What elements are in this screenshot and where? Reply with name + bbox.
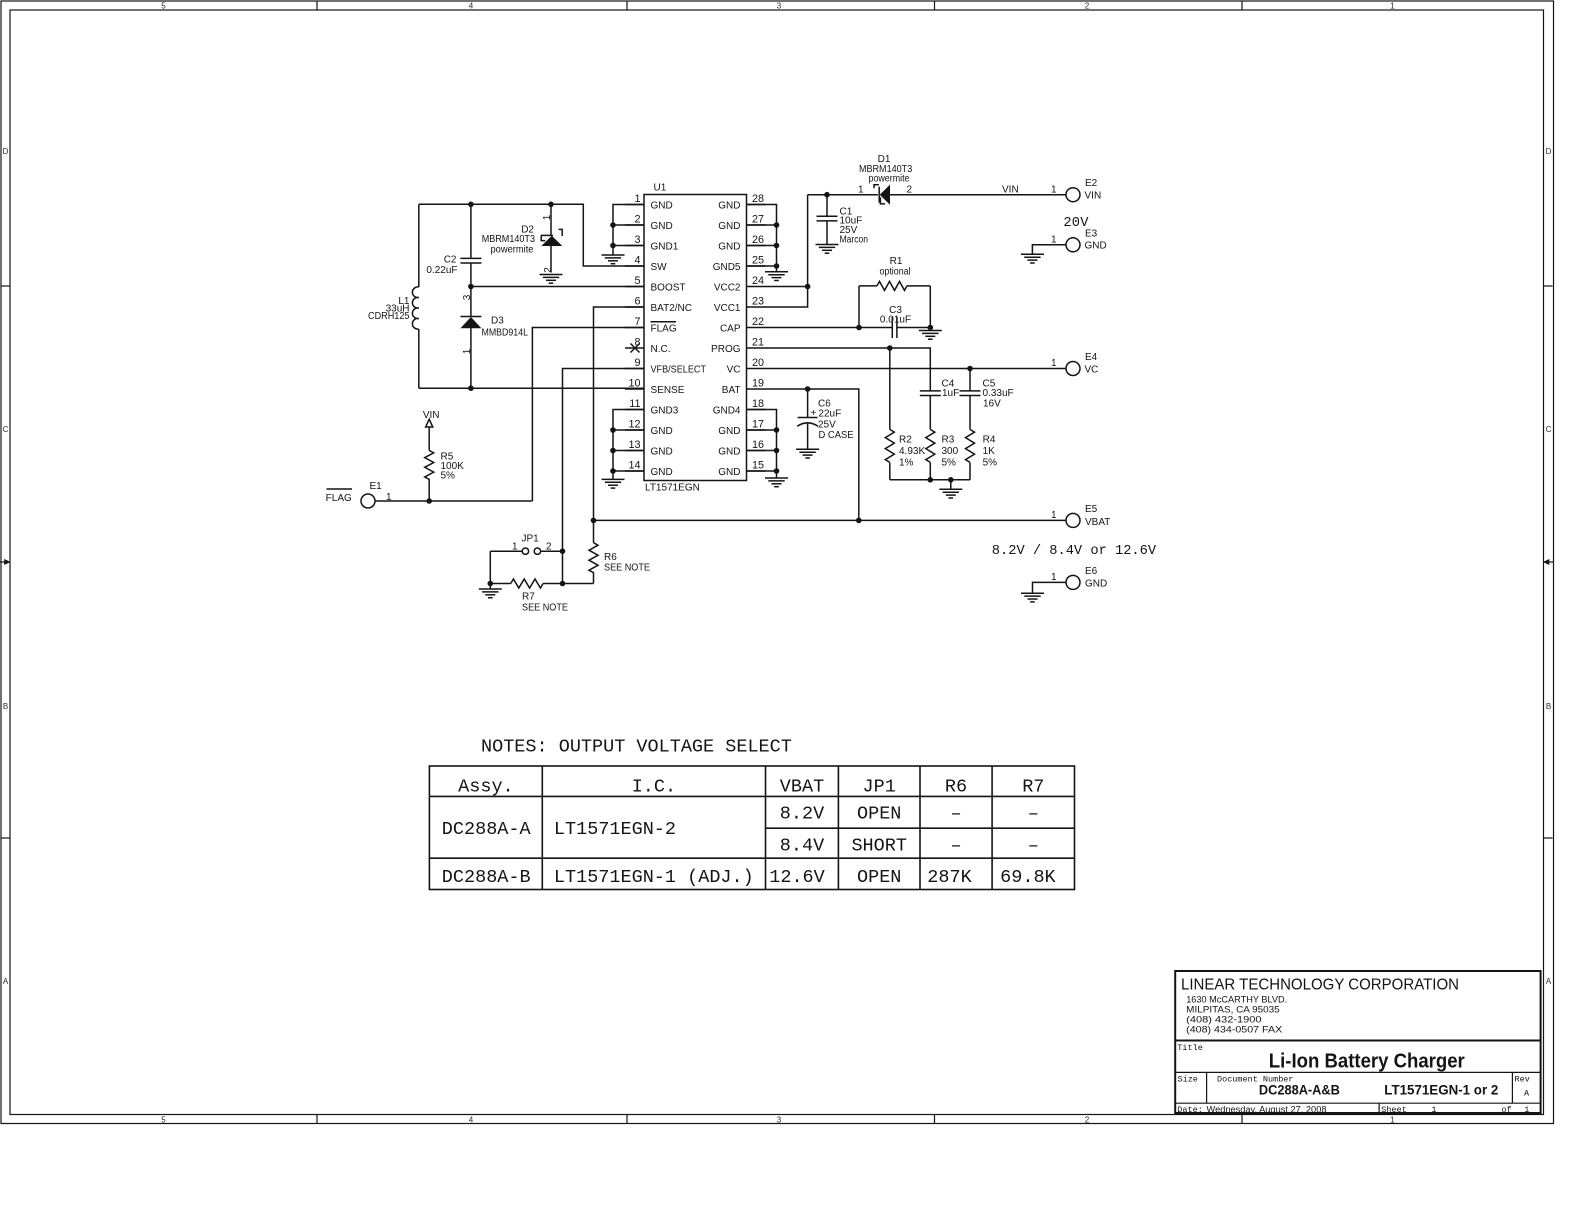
node VC C5 — [967, 366, 973, 372]
svg-text:I.C.: I.C. — [632, 776, 676, 797]
wire PROG net — [766, 348, 931, 391]
table row divider partial — [766, 827, 1075, 829]
svg-text:2: 2 — [543, 267, 554, 273]
wire BOOST — [471, 286, 644, 288]
svg-text:5%: 5% — [983, 458, 998, 469]
title block outer box — [1175, 971, 1540, 1113]
node top rail D2 — [548, 202, 554, 208]
svg-text:B: B — [1546, 702, 1551, 711]
svg-text:22uF: 22uF — [818, 409, 841, 420]
svg-text:SEE NOTE: SEE NOTE — [604, 563, 650, 574]
svg-text:2: 2 — [907, 184, 913, 195]
svg-text:24: 24 — [752, 275, 764, 287]
svg-text:3: 3 — [634, 234, 640, 246]
pin 28 stub — [747, 204, 766, 206]
svg-text:5: 5 — [634, 275, 640, 287]
table column assy — [541, 766, 543, 890]
svg-text:NOTES: OUTPUT VOLTAGE SELECT: NOTES: OUTPUT VOLTAGE SELECT — [481, 737, 792, 758]
svg-text:C: C — [1546, 425, 1552, 434]
wire BAT2/NC net — [594, 307, 645, 543]
ground comp rail — [939, 480, 962, 498]
ground pins 25-28 — [765, 272, 788, 281]
svg-text:D CASE: D CASE — [819, 430, 854, 441]
wire BAT net — [766, 389, 859, 520]
pin 25 stub — [747, 265, 766, 267]
diode D2 — [541, 204, 563, 272]
svg-text:LT1571EGN-1 or 2: LT1571EGN-1 or 2 — [1384, 1082, 1498, 1098]
svg-text:Date:: Date: — [1177, 1105, 1203, 1115]
svg-text:1K: 1K — [983, 446, 996, 457]
svg-text:C2: C2 — [444, 255, 457, 266]
svg-text:17: 17 — [752, 419, 764, 431]
svg-text:R3: R3 — [942, 435, 955, 446]
title block size column divider — [1206, 1072, 1208, 1103]
resistor R4 — [966, 429, 975, 479]
pin 13 stub — [625, 450, 644, 452]
svg-text:22: 22 — [752, 316, 764, 328]
CIRCUIT — [625, 183, 766, 494]
wire CAP net — [766, 327, 893, 329]
svg-text:3: 3 — [462, 294, 473, 300]
svg-text:1: 1 — [634, 193, 640, 205]
resistor R5 — [425, 450, 434, 501]
resistor R3 — [926, 429, 935, 479]
svg-text:4: 4 — [469, 2, 474, 11]
svg-text:GND: GND — [651, 467, 673, 478]
svg-text:R6: R6 — [604, 552, 617, 563]
node pin27 — [774, 222, 780, 228]
svg-text:1: 1 — [1051, 572, 1057, 583]
svg-text:E3: E3 — [1085, 228, 1098, 239]
ground pins 15-18 — [765, 478, 788, 487]
svg-text:287K: 287K — [927, 867, 972, 888]
diode D1 — [874, 185, 1066, 205]
node VFB R7 rail — [560, 581, 566, 587]
svg-text:GND4: GND4 — [713, 405, 741, 416]
svg-text:GND: GND — [718, 426, 740, 437]
svg-text:1: 1 — [1051, 358, 1057, 369]
svg-text:JP1: JP1 — [863, 776, 896, 797]
pin 18 stub — [747, 409, 766, 411]
connector E4 — [1066, 362, 1080, 376]
svg-text:A: A — [1524, 1089, 1530, 1099]
capacitor C6 polarized — [797, 389, 818, 449]
svg-text:(408) 434-0507 FAX: (408) 434-0507 FAX — [1186, 1025, 1283, 1036]
svg-text:3: 3 — [777, 1116, 782, 1125]
connector E6 — [1066, 575, 1080, 589]
svg-text:4: 4 — [469, 1116, 474, 1125]
svg-text:GND: GND — [651, 221, 673, 232]
svg-text:1: 1 — [1051, 184, 1057, 195]
wire pins 11-14 gnd — [613, 410, 644, 479]
svg-text:D3: D3 — [491, 316, 504, 327]
svg-text:GND: GND — [718, 467, 740, 478]
svg-text:MILPITAS, CA 95035: MILPITAS, CA 95035 — [1186, 1004, 1280, 1015]
svg-text:VIN: VIN — [1002, 185, 1019, 196]
ground E6 — [1021, 593, 1044, 602]
connector E5 — [1066, 513, 1080, 527]
title block line under title row — [1175, 1071, 1540, 1073]
pin 16 stub — [747, 450, 766, 452]
wire SW top rail — [419, 204, 644, 266]
table column vbat — [837, 766, 839, 890]
svg-text:GND3: GND3 — [651, 405, 679, 416]
pin 5 stub — [625, 286, 644, 288]
ground pins 1-3 — [602, 255, 625, 264]
svg-text:1: 1 — [1051, 510, 1057, 521]
table column r6 — [991, 766, 993, 890]
svg-text:VIN: VIN — [1085, 191, 1102, 202]
svg-text:6: 6 — [634, 296, 640, 308]
svg-text:E1: E1 — [370, 481, 383, 492]
svg-text:11: 11 — [629, 398, 640, 410]
title block line under company — [1175, 1040, 1540, 1042]
svg-text:5%: 5% — [441, 471, 456, 482]
connector E1 — [361, 494, 375, 508]
node C1 top — [824, 192, 830, 198]
svg-text:1: 1 — [1431, 1105, 1436, 1115]
wire VCC vertical — [766, 195, 808, 307]
table column ic — [765, 766, 767, 890]
svg-text:25V: 25V — [818, 419, 836, 430]
svg-text:12: 12 — [628, 419, 640, 431]
title block rev column divider — [1511, 1072, 1513, 1103]
svg-text:B: B — [3, 702, 8, 711]
svg-text:1: 1 — [386, 492, 392, 503]
svg-text:R7: R7 — [1022, 776, 1044, 797]
pin 8 no-connect X — [631, 344, 640, 353]
svg-text:A: A — [3, 977, 9, 986]
table header underline — [429, 795, 1074, 797]
pin 7 name overline — [651, 321, 677, 323]
wire VCC2 tee — [766, 286, 808, 288]
svg-text:Size: Size — [1178, 1075, 1198, 1085]
svg-text:of: of — [1501, 1105, 1511, 1115]
pin 2 stub — [625, 224, 644, 226]
svg-text:CDRH125: CDRH125 — [368, 311, 410, 322]
svg-text:1%: 1% — [899, 458, 914, 469]
svg-text:JP1: JP1 — [522, 534, 540, 545]
svg-text:SW: SW — [651, 262, 668, 273]
svg-text:–: – — [950, 835, 961, 856]
wire VIN rail left — [808, 194, 878, 196]
svg-text:16: 16 — [752, 439, 764, 451]
pin 9 stub — [625, 368, 644, 370]
svg-text:14: 14 — [628, 460, 640, 472]
svg-text:N.C.: N.C. — [651, 344, 671, 355]
wire FLAG net — [532, 328, 644, 502]
pin 8 stub — [625, 347, 644, 349]
node bottom rail R3 — [928, 477, 934, 483]
svg-text:PROG: PROG — [711, 344, 741, 355]
ground pins 11-14 — [602, 479, 625, 488]
pin 7 stub — [625, 327, 644, 329]
svg-text:GND: GND — [718, 221, 740, 232]
node pin13 — [610, 448, 616, 454]
svg-text:1: 1 — [542, 214, 553, 220]
svg-text:GND: GND — [718, 241, 740, 252]
svg-text:7: 7 — [634, 316, 640, 328]
node CAP R1 right — [928, 325, 934, 331]
wire E6 to ground — [1033, 582, 1067, 593]
svg-text:GND: GND — [718, 200, 740, 211]
svg-text:GND5: GND5 — [713, 262, 741, 273]
node VBAT rail BAT — [856, 518, 862, 524]
svg-text:LINEAR TECHNOLOGY CORPORATION: LINEAR TECHNOLOGY CORPORATION — [1181, 976, 1459, 993]
pin 10 stub — [625, 388, 644, 390]
svg-text:1: 1 — [1524, 1105, 1529, 1115]
wire pins 15-18 gnd — [747, 410, 777, 478]
pin 27 stub — [747, 224, 766, 226]
svg-text:5: 5 — [161, 2, 166, 11]
svg-text:Li-Ion Battery Charger: Li-Ion Battery Charger — [1269, 1051, 1465, 1073]
svg-text:25: 25 — [752, 255, 764, 267]
svg-text:8.2V / 8.4V or 12.6V: 8.2V / 8.4V or 12.6V — [992, 544, 1157, 559]
node VFB JP1-2 — [560, 548, 566, 554]
svg-text:Assy.: Assy. — [458, 776, 514, 797]
pin 12 stub — [625, 429, 644, 431]
svg-text:D: D — [1546, 147, 1552, 156]
svg-text:2: 2 — [1085, 1116, 1090, 1125]
wire VC net — [766, 368, 1067, 370]
svg-text:26: 26 — [752, 234, 764, 246]
svg-text:VFB/SELECT: VFB/SELECT — [651, 364, 707, 375]
svg-text:OPEN: OPEN — [857, 804, 901, 825]
node R5/E1 — [426, 498, 432, 504]
svg-text:VCC1: VCC1 — [714, 303, 741, 314]
svg-text:U1: U1 — [654, 183, 667, 194]
svg-text:D: D — [3, 147, 9, 156]
pin 11 stub — [625, 409, 644, 411]
connector E3 — [1066, 238, 1080, 252]
svg-text:C: C — [3, 425, 9, 434]
svg-text:16V: 16V — [983, 398, 1001, 409]
svg-text:1: 1 — [512, 542, 518, 553]
svg-text:CAP: CAP — [720, 323, 741, 334]
svg-text:DC288A-A: DC288A-A — [442, 819, 532, 840]
svg-text:8: 8 — [634, 337, 640, 349]
ground C1 — [816, 245, 839, 254]
wire pins 1-3 gnd — [613, 205, 644, 255]
svg-text:GND: GND — [651, 200, 673, 211]
resistor R1 — [859, 281, 930, 327]
svg-text:1: 1 — [1390, 1116, 1395, 1125]
svg-text:A: A — [1546, 977, 1552, 986]
svg-text:VC: VC — [1085, 364, 1099, 375]
svg-text:3: 3 — [777, 2, 782, 11]
svg-text:FLAG: FLAG — [326, 493, 352, 504]
pin 23 stub — [747, 306, 766, 308]
svg-text:MMBD914L: MMBD914L — [482, 328, 529, 339]
node BOOST C2/D3 — [468, 284, 474, 290]
pin 14 stub — [625, 470, 644, 472]
svg-text:8.2V: 8.2V — [780, 804, 824, 825]
svg-text:2: 2 — [1085, 2, 1090, 11]
svg-text:Title: Title — [1177, 1043, 1203, 1053]
wire VBAT rail — [594, 519, 1067, 521]
svg-text:VCC2: VCC2 — [714, 282, 741, 293]
wire VFB net — [563, 369, 645, 584]
pin 3 stub — [625, 245, 644, 247]
node pin16 — [774, 448, 780, 454]
wire comp bottom rail — [890, 479, 970, 481]
wire pins 25-28 gnd — [747, 205, 777, 272]
wire JP1-1 down — [489, 551, 491, 583]
svg-text:4.93K: 4.93K — [899, 446, 925, 457]
resistor R7 — [490, 579, 593, 588]
svg-text:SHORT: SHORT — [851, 835, 907, 856]
svg-text:Marcon: Marcon — [840, 234, 869, 245]
svg-text:E4: E4 — [1085, 352, 1098, 363]
power arrow VIN at R5 — [423, 410, 440, 450]
svg-text:300: 300 — [942, 446, 959, 457]
pin 1 stub — [625, 204, 644, 206]
pin 24 stub — [747, 286, 766, 288]
svg-text:4: 4 — [634, 255, 640, 267]
ground below D2 — [540, 275, 563, 284]
pin 6 stub — [625, 306, 644, 308]
svg-text:15: 15 — [752, 460, 764, 472]
table outer box — [429, 766, 1074, 890]
svg-text:VBAT: VBAT — [780, 776, 824, 797]
svg-text:GND: GND — [1085, 241, 1107, 252]
TITLEBLOCK — [1175, 971, 1540, 1115]
svg-text:23: 23 — [752, 296, 764, 308]
resistor R6 — [589, 543, 598, 584]
svg-text:5%: 5% — [942, 458, 957, 469]
WIRES1 — [326, 202, 1066, 614]
capacitor C5 — [960, 369, 981, 430]
svg-text:2: 2 — [634, 214, 640, 226]
connector E2 — [1066, 188, 1080, 202]
wire E1 rail — [375, 500, 532, 502]
resistor R2 — [885, 348, 894, 480]
svg-text:Rev: Rev — [1515, 1075, 1530, 1085]
pin 17 stub — [747, 429, 766, 431]
wire E3 to ground — [1032, 245, 1066, 254]
WIRES2 — [747, 154, 1157, 602]
svg-text:LT1571EGN: LT1571EGN — [645, 483, 700, 494]
svg-text:E5: E5 — [1085, 504, 1098, 515]
svg-text:8.4V: 8.4V — [780, 835, 824, 856]
wire SENSE rail — [419, 387, 644, 389]
svg-text:BAT: BAT — [722, 385, 741, 396]
svg-text:1: 1 — [462, 348, 473, 354]
svg-text:GND1: GND1 — [651, 241, 679, 252]
svg-text:GND: GND — [1085, 579, 1107, 590]
svg-text:28: 28 — [752, 193, 764, 205]
pin 20 stub — [747, 368, 766, 370]
svg-text:R2: R2 — [899, 435, 912, 446]
table row divider full — [429, 857, 1074, 859]
svg-text:VC: VC — [727, 364, 741, 375]
node VCC2 — [805, 284, 811, 290]
node top rail C2 — [468, 202, 474, 208]
svg-text:R4: R4 — [983, 435, 996, 446]
diode D3 — [460, 287, 481, 389]
pin 15 stub — [747, 470, 766, 472]
capacitor C3 — [892, 317, 930, 338]
svg-text:1: 1 — [1051, 234, 1057, 245]
node R7 left — [488, 581, 494, 587]
svg-text:BAT2/NC: BAT2/NC — [651, 303, 693, 314]
node CAP R1 left — [856, 325, 862, 331]
svg-text:GND: GND — [651, 446, 673, 457]
svg-text:–: – — [950, 804, 961, 825]
pin 21 stub — [747, 347, 766, 349]
svg-text:9: 9 — [634, 357, 640, 369]
ground C3 — [919, 331, 942, 340]
svg-text:VBAT: VBAT — [1085, 517, 1110, 528]
svg-text:E2: E2 — [1085, 178, 1098, 189]
node bottom rail gnd — [948, 477, 954, 483]
svg-text:FLAG: FLAG — [651, 323, 677, 334]
svg-text:–: – — [1028, 804, 1039, 825]
node pin17 — [774, 427, 780, 433]
NOTESTABLE — [429, 737, 1074, 890]
svg-text:LT1571EGN-1 (ADJ.): LT1571EGN-1 (ADJ.) — [554, 867, 754, 888]
node pin12 — [610, 427, 616, 433]
node pin14 — [610, 468, 616, 474]
svg-text:19: 19 — [752, 378, 764, 390]
svg-text:GND: GND — [651, 426, 673, 437]
svg-text:21: 21 — [752, 337, 764, 349]
svg-text:0.22uF: 0.22uF — [426, 265, 457, 276]
ground E3 — [1021, 254, 1044, 263]
inductor L1 — [412, 204, 418, 388]
svg-text:–: – — [1028, 835, 1039, 856]
capacitor C4 — [920, 391, 941, 430]
svg-text:GND: GND — [718, 446, 740, 457]
svg-text:BOOST: BOOST — [651, 282, 686, 293]
svg-text:optional: optional — [880, 266, 911, 277]
node pin3 — [610, 243, 616, 249]
pin 26 stub — [747, 245, 766, 247]
node SENSE D3 — [468, 385, 474, 391]
svg-text:1: 1 — [858, 184, 864, 195]
svg-text:SEE NOTE: SEE NOTE — [522, 603, 568, 614]
title block sheet column divider — [1378, 1103, 1380, 1113]
node PROG R2 — [887, 345, 893, 351]
node BAT C6 — [805, 386, 811, 392]
svg-text:R6: R6 — [945, 776, 967, 797]
ground JP1/R7 — [479, 584, 502, 598]
jumper JP1 — [490, 548, 562, 554]
node pin2 — [610, 222, 616, 228]
node pin25 — [774, 263, 780, 269]
svg-text:powermite: powermite — [491, 244, 534, 255]
svg-text:LT1571EGN-2: LT1571EGN-2 — [554, 819, 676, 840]
svg-text:13: 13 — [628, 439, 640, 451]
capacitor C1 — [817, 195, 838, 244]
svg-text:DC288A-A&B: DC288A-A&B — [1259, 1082, 1340, 1098]
node pin15 — [774, 468, 780, 474]
node BAT2 VBAT rail — [591, 518, 597, 524]
svg-text:1: 1 — [1390, 2, 1395, 11]
svg-text:R7: R7 — [522, 592, 535, 603]
pin 19 stub — [747, 388, 766, 390]
svg-text:Sheet: Sheet — [1381, 1105, 1407, 1115]
capacitor C2 — [460, 204, 481, 286]
svg-text:69.8K: 69.8K — [1000, 867, 1056, 888]
IC U1 LT1571EGN body — [644, 195, 747, 481]
pin 22 stub — [747, 327, 766, 329]
node pin26 — [774, 243, 780, 249]
svg-text:1uF: 1uF — [942, 388, 959, 399]
svg-text:DC288A-B: DC288A-B — [442, 867, 531, 888]
table column jp1 — [919, 766, 921, 890]
svg-text:20: 20 — [752, 357, 764, 369]
